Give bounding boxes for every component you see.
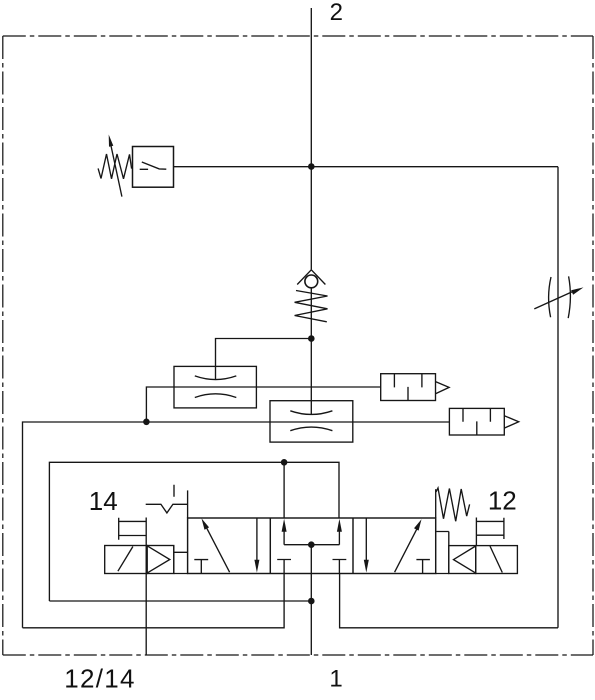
svg-text:12: 12: [488, 486, 517, 516]
junction node: pilot branch at 146,422: [143, 419, 150, 426]
wire: branch to restrictor FC1: [216, 339, 312, 381]
silencer M2 outlet cone: [504, 416, 518, 428]
valve V1 left position: flow 2 to 5 arrow: [254, 518, 259, 573]
wire: port 2 main vertical (top): [310, 8, 312, 270]
silencer M1 body: [381, 374, 436, 401]
wire: supply loop top (valve outputs 4/2 header): [49, 462, 339, 601]
pressure switch PS1 adjustment spring: [98, 154, 132, 179]
silencer M2 body: [449, 408, 504, 435]
valve V1 right end-cap extension: [435, 489, 437, 518]
adjustable throttle on right rail: [534, 276, 583, 318]
pilot solenoid Y14 coil box: [105, 546, 147, 574]
wire: right rail vertical: [557, 167, 559, 628]
valve V1 left position: blocked port 3: [194, 560, 208, 574]
valve V1 right position: blocked port 5: [416, 560, 430, 574]
wire: pressure switch output to right rail: [174, 166, 559, 168]
pressure switch PS1 box: [133, 147, 174, 188]
svg-text:14: 14: [89, 486, 118, 516]
flow restrictor FC1 body: [174, 366, 256, 408]
check valve CV1 poppet ball: [305, 275, 318, 288]
silencer M1 outlet cone: [436, 382, 450, 394]
flow restrictor FC2 body: [270, 401, 353, 442]
port label 12/14: [64, 664, 136, 694]
port label 1: [329, 665, 342, 692]
flow restrictor FC2 nozzle arcs: [290, 411, 332, 431]
pilot 12 step block: [436, 532, 449, 574]
wire: restrictor FC1 exhaust line to silencer 1: [146, 387, 380, 422]
junction node: branch to restrictor FC1: [308, 335, 315, 342]
pressure switch PS1 actuation arrow: [109, 135, 122, 197]
junction node at 284,462: [281, 459, 288, 466]
pilot 12 amplifier triangle: [449, 546, 476, 574]
wire: exhaust port 5 drop to right rail: [340, 574, 558, 628]
wire: main vertical through check valve spring: [310, 288, 312, 415]
valve V1 mid position: blocked port 3: [277, 560, 291, 574]
pilot Y12 air pilot plate: [476, 518, 504, 546]
pilot Y14 step block: [174, 546, 188, 574]
valve V1 right position: flow 1 to 2 arrow: [395, 519, 422, 572]
flow restrictor FC1 nozzle arcs: [195, 376, 237, 398]
check valve CV1 seat: [297, 270, 325, 285]
valve V1 mid position: port 4 arrow up: [282, 519, 287, 545]
junction node: main line x switch line: [308, 163, 315, 170]
wire: exhaust header through FC2 to silencer 2: [23, 422, 450, 628]
pilot Y14 amplifier triangle: [147, 546, 174, 574]
pressure switch PS1 contact: [140, 162, 167, 169]
valve V1 left position: flow 1 to 4 arrow: [202, 518, 230, 572]
pilot Y14 manual override detent: [146, 485, 188, 513]
wire: exhaust port 3 drop from valve: [23, 574, 285, 628]
valve V1 left end-cap extension: [187, 490, 189, 518]
wire: port 1 line: [310, 574, 312, 656]
pilot Y14 air pilot plate: [119, 518, 147, 540]
valve V1 body: [188, 518, 436, 574]
pilot label 12: [488, 486, 517, 516]
pilot solenoid Y12 coil box: [476, 546, 518, 574]
check valve CV1 spring: [295, 291, 328, 322]
valve V1 mid position: blocked port 5: [333, 560, 347, 574]
pilot label 14: [89, 486, 118, 516]
svg-text:1: 1: [329, 665, 342, 692]
port 2 label: [330, 0, 343, 26]
svg-text:2: 2: [330, 0, 343, 26]
valve V1 mid position: junction node: [308, 541, 315, 548]
valve V1 right position: flow 4 to 3 arrow: [364, 518, 369, 573]
pilot 12 return spring: [436, 488, 470, 521]
valve V1 mid position: port 2 arrow up: [337, 519, 342, 545]
wire: supply loop bottom to port 1: [49, 600, 311, 602]
wire: pilot line 12/14: [145, 518, 147, 656]
valve V1 mid position: connector and supply stem: [284, 545, 339, 574]
svg-text:12/14: 12/14: [64, 664, 136, 694]
junction node at 311,601: [308, 598, 315, 605]
